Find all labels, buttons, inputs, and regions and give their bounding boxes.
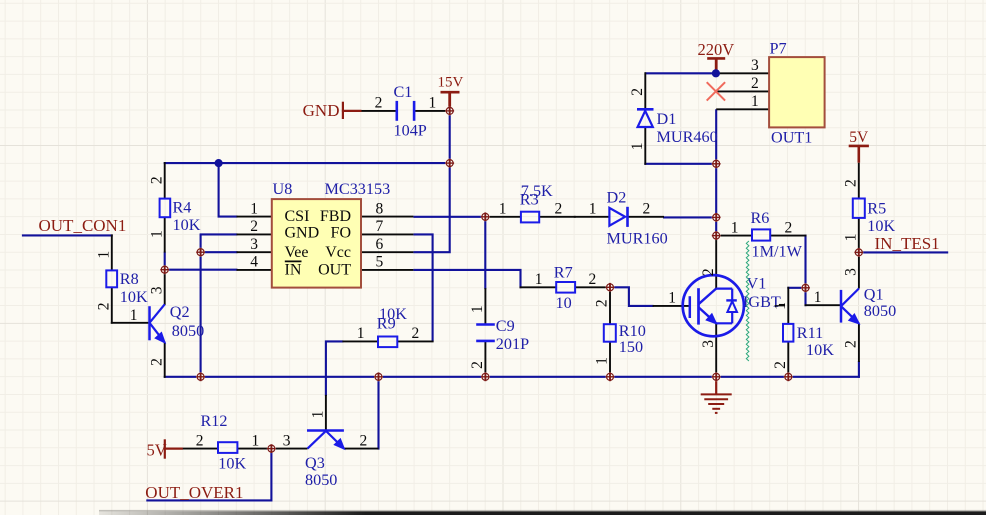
transistor Q1 xyxy=(840,290,843,323)
svg-text:8050: 8050 xyxy=(305,471,337,489)
svg-text:2: 2 xyxy=(772,361,789,369)
R12 pin 2 lead xyxy=(181,448,218,450)
svg-text:1: 1 xyxy=(252,432,260,449)
wire R6 to Q1 base node xyxy=(804,235,806,289)
D1 pin 1 lead xyxy=(644,127,646,164)
svg-text:10: 10 xyxy=(556,294,572,312)
wire vertical Vee-GND rail xyxy=(200,234,202,377)
svg-text:2: 2 xyxy=(412,325,420,342)
svg-text:FO: FO xyxy=(331,224,351,241)
svg-text:OUT: OUT xyxy=(318,261,351,278)
transistor Q2 xyxy=(148,306,151,340)
capacitor C1 xyxy=(395,101,398,121)
svg-text:Vcc: Vcc xyxy=(325,244,351,261)
R7 pin 2 lead xyxy=(575,286,611,288)
Q2 collector lead xyxy=(164,269,166,306)
svg-text:2: 2 xyxy=(751,75,759,92)
svg-text:FBD: FBD xyxy=(320,208,351,225)
svg-text:3: 3 xyxy=(700,340,717,348)
svg-text:220V: 220V xyxy=(698,40,735,59)
svg-text:2: 2 xyxy=(250,218,258,235)
svg-text:2: 2 xyxy=(469,361,486,369)
resistor R4 xyxy=(160,199,171,218)
svg-text:P7: P7 xyxy=(770,40,787,58)
svg-text:3: 3 xyxy=(843,268,860,276)
wire FBD to C9 xyxy=(484,216,486,289)
svg-text:10K: 10K xyxy=(173,216,201,234)
svg-text:2: 2 xyxy=(785,219,793,236)
igbt V1 symbol xyxy=(683,275,744,336)
wire U8 GND pin2 stub xyxy=(200,233,238,235)
svg-text:150: 150 xyxy=(619,338,643,356)
svg-text:201P: 201P xyxy=(496,335,529,353)
resistor R8 xyxy=(106,270,117,287)
compile error squiggle xyxy=(746,241,749,361)
R5 pin 2 lead xyxy=(858,163,860,199)
no-ERC marker on P7 pin 2 xyxy=(707,82,725,100)
svg-text:1: 1 xyxy=(668,290,676,307)
power port GND xyxy=(342,102,344,119)
svg-text:R7: R7 xyxy=(554,264,573,282)
U8 pin 4 lead xyxy=(237,269,273,271)
svg-text:R11: R11 xyxy=(797,324,823,342)
svg-text:R8: R8 xyxy=(120,270,139,288)
svg-text:1: 1 xyxy=(499,201,507,218)
svg-text:8050: 8050 xyxy=(864,302,896,320)
U8 pin 3 lead xyxy=(237,251,273,253)
svg-text:C1: C1 xyxy=(394,83,413,101)
ground earth symbol xyxy=(715,377,717,394)
svg-text:2: 2 xyxy=(555,201,563,218)
capacitor C9 xyxy=(476,323,495,326)
P7 pin 1 lead xyxy=(716,108,769,110)
wire OUT_CON1 to R8 xyxy=(22,234,113,236)
IGBT gate lead xyxy=(653,305,689,307)
svg-text:1: 1 xyxy=(629,143,646,151)
power port 5V top xyxy=(849,145,869,148)
junction dot node A xyxy=(215,159,223,167)
svg-text:1: 1 xyxy=(814,289,822,306)
wire D1 cathode to 220V node xyxy=(645,72,716,74)
Q3 pin 3 lead xyxy=(270,448,307,450)
wire junction markers xyxy=(445,106,454,115)
svg-text:8: 8 xyxy=(376,200,384,217)
wire U8 Vee pin3 stub xyxy=(200,251,238,253)
svg-text:2: 2 xyxy=(594,299,611,307)
R10 pin 2 lead xyxy=(609,286,611,324)
P7 pin 3 lead xyxy=(716,72,769,74)
svg-text:10K: 10K xyxy=(806,341,834,359)
resistor R12 xyxy=(218,442,237,453)
Q1 base lead xyxy=(805,304,842,306)
junction dot 220V node xyxy=(712,69,720,77)
svg-text:3: 3 xyxy=(751,57,759,74)
svg-text:1: 1 xyxy=(751,93,759,110)
wire U8 FO to R9 xyxy=(413,234,432,341)
svg-text:8050: 8050 xyxy=(172,322,204,340)
R6 pin 2 lead xyxy=(770,235,806,237)
resistor R9 xyxy=(378,337,397,348)
svg-text:2: 2 xyxy=(842,179,859,187)
U8 pin 2 lead xyxy=(237,233,273,235)
svg-text:2: 2 xyxy=(375,94,383,111)
svg-text:IN_TES1: IN_TES1 xyxy=(875,234,940,253)
svg-text:2: 2 xyxy=(700,268,717,276)
wire emitter ground bus xyxy=(164,376,860,378)
svg-text:1: 1 xyxy=(731,219,739,236)
svg-text:Q3: Q3 xyxy=(305,454,325,472)
D2 pin 2 lead xyxy=(628,216,664,218)
R10 pin 1 lead xyxy=(609,342,611,378)
power port 5V bottom xyxy=(164,439,166,458)
svg-text:R4: R4 xyxy=(173,199,192,217)
U8 pin 6 lead xyxy=(361,251,414,253)
wire D1 anode to output xyxy=(644,163,717,165)
svg-text:C9: C9 xyxy=(496,317,515,335)
svg-text:10K: 10K xyxy=(867,217,895,235)
svg-text:6: 6 xyxy=(376,236,384,253)
D1 pin 2 lead xyxy=(644,72,646,109)
svg-text:3: 3 xyxy=(148,286,165,294)
svg-text:R5: R5 xyxy=(867,200,886,218)
svg-text:D1: D1 xyxy=(657,110,677,128)
R6 pin 1 lead xyxy=(715,235,752,237)
C1 pin 2 lead xyxy=(361,110,396,112)
svg-text:15V: 15V xyxy=(438,74,464,90)
R4 pin 2 lead xyxy=(164,162,166,199)
resistor R6 xyxy=(752,229,770,240)
svg-text:1: 1 xyxy=(469,305,486,313)
wire output vertical net xyxy=(715,109,717,236)
Q1 emitter lead xyxy=(858,324,860,363)
svg-text:3: 3 xyxy=(283,432,291,449)
C1 pin 1 lead xyxy=(415,110,451,112)
svg-text:7.5K: 7.5K xyxy=(521,182,553,200)
D2 pin 1 lead xyxy=(574,216,610,218)
svg-text:1: 1 xyxy=(357,325,365,342)
svg-text:1: 1 xyxy=(429,94,437,111)
resistor R11 xyxy=(783,324,793,342)
svg-text:1: 1 xyxy=(250,200,258,217)
svg-text:5V: 5V xyxy=(849,129,869,146)
wire Q1 emitter to bus xyxy=(858,361,860,378)
ic U8 body xyxy=(272,199,361,288)
svg-text:5: 5 xyxy=(376,254,384,271)
svg-text:1: 1 xyxy=(535,271,543,288)
svg-text:IN: IN xyxy=(285,261,302,278)
wire U8 OUT to R7 xyxy=(413,270,520,288)
R3 pin 1 lead xyxy=(484,216,521,218)
svg-text:OUT_CON1: OUT_CON1 xyxy=(39,216,127,235)
svg-text:5V: 5V xyxy=(147,441,167,460)
svg-text:1: 1 xyxy=(95,251,112,259)
R5 pin 1 lead xyxy=(858,218,860,254)
Q2 base lead xyxy=(111,322,149,324)
svg-text:10K: 10K xyxy=(379,305,407,323)
wire IN_TES1 xyxy=(859,251,948,253)
svg-text:1: 1 xyxy=(594,357,611,365)
R9 pin 2 lead xyxy=(397,340,433,342)
svg-text:1M/1W: 1M/1W xyxy=(752,242,803,260)
Q3 pin 2 lead xyxy=(344,448,379,450)
R4 pin 1 lead xyxy=(164,217,166,252)
R11 pin 1 lead xyxy=(787,287,789,324)
wire U8 IN pin4 to node xyxy=(164,269,238,271)
svg-text:1: 1 xyxy=(130,307,138,324)
R11 pin 2 lead xyxy=(787,342,789,378)
diode D2 xyxy=(609,208,625,226)
wire node to R11 xyxy=(787,287,805,289)
svg-text:10K: 10K xyxy=(120,288,148,306)
U8 pin 5 lead xyxy=(361,269,414,271)
svg-text:4: 4 xyxy=(250,254,258,271)
svg-text:2: 2 xyxy=(629,88,646,96)
svg-text:V1: V1 xyxy=(747,274,767,292)
stub after IGBT label xyxy=(779,304,785,306)
connector P7 body xyxy=(769,57,825,127)
svg-text:1: 1 xyxy=(772,302,789,310)
resistor R10 xyxy=(604,324,616,342)
svg-text:R6: R6 xyxy=(751,209,770,227)
svg-text:MC33153: MC33153 xyxy=(325,180,391,198)
transistor Q3 xyxy=(307,429,344,432)
svg-text:10K: 10K xyxy=(218,455,246,473)
R12 pin 1 lead xyxy=(237,448,272,450)
svg-text:U8: U8 xyxy=(273,180,293,198)
power port 220V xyxy=(707,57,725,60)
svg-text:MUR460: MUR460 xyxy=(657,128,718,146)
U8 pin 7 lead xyxy=(361,233,414,235)
svg-text:OUT_OVER1: OUT_OVER1 xyxy=(145,483,243,502)
wire U8 FBD to R3 xyxy=(413,216,486,218)
wire Q3 emitter to bus xyxy=(377,376,379,450)
resistor R5 xyxy=(853,199,865,218)
svg-text:MUR160: MUR160 xyxy=(607,230,668,248)
svg-text:2: 2 xyxy=(589,271,597,288)
C9 pin 2 lead xyxy=(484,342,486,378)
svg-text:1: 1 xyxy=(589,201,597,218)
svg-text:D2: D2 xyxy=(607,189,627,207)
C9 pin 1 lead xyxy=(484,288,486,323)
svg-text:7: 7 xyxy=(376,218,384,235)
svg-text:3: 3 xyxy=(250,236,258,253)
R8 pin 2 lead xyxy=(111,287,113,323)
svg-text:Vee: Vee xyxy=(285,244,309,261)
resistor R7 xyxy=(556,282,575,293)
wire R9 to Q3 collector xyxy=(326,341,344,396)
svg-text:2: 2 xyxy=(643,201,651,218)
svg-text:GND: GND xyxy=(285,224,320,241)
R7 pin 1 lead xyxy=(520,286,557,288)
svg-text:1: 1 xyxy=(842,234,859,242)
svg-text:2: 2 xyxy=(196,432,204,449)
P7 pin 2 lead xyxy=(717,90,770,92)
svg-text:R12: R12 xyxy=(201,412,228,430)
power port 15V xyxy=(441,91,460,94)
R8 pin 1 lead xyxy=(111,234,113,270)
wire OUT_OVER1 xyxy=(146,448,271,501)
Q1 collector lead xyxy=(858,251,860,288)
Q2 emitter lead xyxy=(164,342,166,378)
wire D2 to output node xyxy=(663,216,717,218)
IGBT emitter lead xyxy=(715,323,717,378)
svg-text:1: 1 xyxy=(310,411,327,419)
svg-text:Q1: Q1 xyxy=(864,286,884,304)
IGBT collector lead xyxy=(715,236,717,289)
resistor R3 xyxy=(521,212,539,223)
U8 pin 1 lead xyxy=(237,216,273,218)
svg-text:2: 2 xyxy=(148,176,165,184)
svg-text:2: 2 xyxy=(95,303,112,311)
R9 pin 1 lead xyxy=(342,340,378,342)
wire node down to Q1 base xyxy=(804,287,806,306)
U8 pin 8 lead xyxy=(361,216,414,218)
wire node to U8 pin1 xyxy=(219,163,238,217)
wire R4 to node A xyxy=(164,252,166,271)
svg-text:OUT1: OUT1 xyxy=(771,128,812,146)
svg-text:CSI: CSI xyxy=(285,208,310,225)
wire R7 to IGBT gate xyxy=(609,287,654,306)
svg-text:1: 1 xyxy=(148,230,165,238)
wire 15V top rail xyxy=(164,162,451,164)
svg-text:2: 2 xyxy=(148,358,165,366)
svg-text:Q2: Q2 xyxy=(170,303,190,321)
diode D1 xyxy=(637,108,654,111)
svg-text:104P: 104P xyxy=(394,122,427,140)
svg-text:GND: GND xyxy=(303,101,340,120)
wire U8 Vcc to 15V xyxy=(413,110,449,252)
R3 pin 2 lead xyxy=(539,216,576,218)
svg-text:2: 2 xyxy=(360,432,368,449)
svg-text:2: 2 xyxy=(843,340,860,348)
Q3 pin 1 lead xyxy=(325,395,327,431)
